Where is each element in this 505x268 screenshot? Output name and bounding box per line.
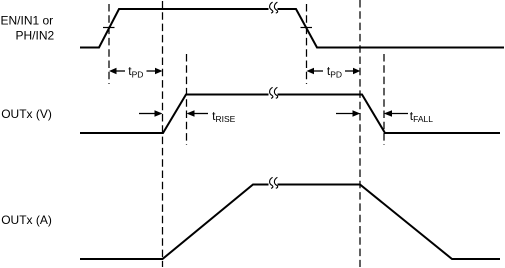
wire: tRISE end arrow pointing left into rise-end dashed line — [187, 110, 209, 116]
svg-text:tFALL: tFALL — [410, 109, 433, 124]
svg-text:tPD: tPD — [128, 64, 143, 80]
svg-text:OUTx (V): OUTx (V) — [1, 107, 52, 121]
wire: EN/IN1 waveform low-left segment — [80, 9, 269, 48]
svg-text:EN/IN1 or: EN/IN1 or — [1, 13, 54, 27]
wire: EN/IN1 waveform high segment after break — [278, 9, 505, 48]
wire: tPD right measure arrow (second) — [345, 68, 360, 74]
svg-text:OUTx (A): OUTx (A) — [1, 213, 52, 227]
node: 50% tick on EN falling edge — [301, 27, 313, 29]
wire: tRISE start arrow pointing right into rise-start dashed line — [139, 110, 163, 116]
wire: OUTx (V) waveform right segment after break — [278, 95, 501, 134]
node: dashed line at EN rise 50% crossing — [108, 4, 110, 84]
wire: tFALL start arrow pointing right into fall-start dashed line — [336, 110, 360, 116]
wire: tPD right measure arrow (first) — [147, 68, 163, 74]
node: break symbol on OUTx (A) top line — [270, 177, 278, 188]
svg-text:tPD: tPD — [327, 64, 342, 80]
svg-text:tRISE: tRISE — [212, 109, 236, 124]
node: dashed line at OUTx (V) rise end — [186, 54, 188, 145]
node: dashed line at EN fall 50% crossing — [306, 4, 308, 84]
wire: tPD left measure arrow (first) — [109, 68, 125, 74]
node: break symbol on EN high line — [270, 2, 278, 13]
node: 50% tick on EN rising edge — [103, 27, 115, 29]
wire: tPD left measure arrow (second) — [307, 68, 324, 74]
node: dashed line at OUTx rise start (full height) — [162, 1, 164, 267]
wire: OUTx (A) waveform left segment — [80, 185, 269, 260]
wire: tFALL end arrow pointing left into fall-end dashed line — [384, 110, 408, 116]
node: dashed line at OUTx fall start (full height) — [359, 0, 361, 267]
node: break symbol on OUTx (V) high line — [270, 87, 278, 98]
wire: OUTx (V) waveform left segment — [80, 95, 269, 134]
svg-text:PH/IN2: PH/IN2 — [16, 28, 55, 42]
wire: OUTx (A) waveform right segment after break — [278, 185, 501, 260]
node: dashed line at OUTx (V) fall end — [383, 54, 385, 145]
